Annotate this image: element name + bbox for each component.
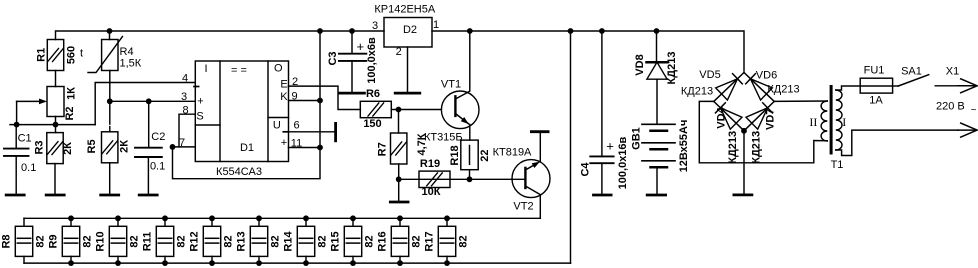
wire: node-B net (pin3/C2/R4/R5) horizontal	[110, 100, 196, 102]
svg-text:R11: R11	[142, 232, 154, 252]
resistor R5	[109, 101, 111, 124]
wire: resistor bank bottom rail	[24, 262, 571, 264]
svg-text:100,0х6в: 100,0х6в	[366, 37, 378, 84]
transistor VT2 КТ819А	[512, 160, 550, 198]
svg-text:= =: = =	[231, 65, 247, 77]
wire: base row R7 node to VT2 base	[399, 178, 526, 180]
svg-text:+: +	[606, 139, 614, 154]
node: rail junction at C3	[349, 28, 355, 34]
svg-text:K: K	[280, 91, 288, 103]
transformer T1 winding II	[821, 101, 827, 141]
wire: bridge edge B-R	[744, 101, 774, 130]
wire: pin4 riser	[95, 83, 195, 125]
svg-text:R4: R4	[120, 46, 134, 58]
svg-text:R8: R8	[1, 234, 13, 248]
svg-text:VD8: VD8	[634, 54, 646, 75]
wire R4 bottom to node B	[109, 71, 111, 102]
svg-text:КД213: КД213	[681, 86, 713, 98]
node: riser to rail	[568, 28, 574, 34]
node: pin 11 junction	[317, 145, 323, 151]
wire pin 6 to chassis bar	[289, 131, 335, 133]
chassis ground under R7	[390, 201, 408, 204]
wire SA1 fixed contact to X1 arrow	[935, 85, 958, 87]
svg-text:2К: 2К	[119, 140, 131, 153]
svg-text:VT1: VT1	[441, 79, 461, 91]
battery GB1 12Вх55Ач	[642, 123, 675, 125]
resistor R11 82	[164, 218, 166, 226]
svg-text:I: I	[204, 63, 207, 75]
node: R7/R19/ground junction	[396, 176, 402, 182]
node: rail at C4	[599, 28, 605, 34]
chassis ground under R3	[46, 194, 64, 197]
svg-text:82: 82	[35, 235, 47, 247]
connector X1 lower arrow	[961, 123, 977, 137]
svg-text:82: 82	[270, 235, 282, 247]
wire pin 9 (K)	[289, 100, 321, 102]
svg-text:R2: R2	[64, 106, 76, 120]
svg-text:D1: D1	[240, 142, 254, 154]
capacitor C3 (electrolytic)	[351, 31, 353, 54]
svg-text:R9: R9	[48, 234, 60, 248]
diode VD4 КД213	[720, 108, 742, 129]
svg-text:+: +	[281, 137, 287, 149]
op-amp comparator U/D1 К554СА3 box	[195, 61, 288, 162]
wire pin 7 to corner	[173, 146, 196, 148]
wire: winding I bottom to 220V lower line	[836, 130, 958, 155]
svg-text:100,0х16в: 100,0х16в	[617, 136, 629, 189]
resistor R1	[47, 40, 63, 71]
node: C1/wiper junction	[14, 122, 20, 128]
svg-text:T1: T1	[831, 159, 844, 171]
wire: resistor bank top rail	[24, 217, 540, 219]
svg-text:D2: D2	[403, 24, 417, 36]
svg-text:82: 82	[364, 235, 376, 247]
VT2 collector (down)	[525, 186, 540, 195]
svg-text:R3: R3	[34, 140, 46, 154]
svg-text:КД213: КД213	[767, 84, 799, 96]
node: VT1 collector to rail	[467, 28, 473, 34]
VT2 emitter (up) with arrow	[525, 163, 537, 170]
wire: bridge bottom to chassis	[743, 131, 745, 194]
node: R2/R3 junction	[53, 122, 59, 128]
svg-text:VD4: VD4	[715, 106, 727, 128]
svg-text:82: 82	[317, 235, 329, 247]
svg-text:C1: C1	[18, 133, 32, 145]
diode VD5 КД213	[716, 79, 738, 100]
chassis ground under GB1	[647, 194, 665, 197]
chassis bar at pin 6 (vertical)	[334, 123, 337, 140]
node: rail at VD8	[654, 28, 660, 34]
svg-text:R6: R6	[366, 88, 380, 100]
wire: +5V rail from R1 top to D2 pin 3	[56, 31, 385, 40]
node: C2 junction	[146, 98, 152, 104]
svg-text:1,5К: 1,5К	[120, 58, 142, 70]
wire pin 2 (E) to R6	[289, 86, 361, 109]
svg-text:82: 82	[411, 235, 423, 247]
node: rail junction at output riser x=320	[317, 28, 323, 34]
resistor R12 82	[211, 218, 213, 226]
node: bottom rail at R11	[162, 260, 168, 266]
svg-text:0.1: 0.1	[150, 161, 165, 173]
svg-text:R5: R5	[86, 139, 98, 153]
svg-text:КД213: КД213	[750, 131, 762, 164]
node: bottom rail at R9	[68, 260, 74, 266]
resistor R10 82	[117, 218, 119, 226]
resistor R15 82	[352, 218, 354, 226]
wire R2 bottom to junction	[55, 117, 57, 125]
resistor R13 82	[258, 218, 260, 226]
svg-text:82: 82	[82, 235, 94, 247]
wire pin 8 jog to pin 7 net	[179, 114, 195, 147]
label minus output	[283, 131, 288, 133]
svg-text:1: 1	[433, 19, 439, 31]
node: bottom rail at R16	[397, 260, 403, 266]
diode VD8 КД213	[656, 31, 658, 62]
node: top rail at R15	[350, 215, 356, 221]
switch SA1 lever	[898, 75, 928, 86]
capacitor C2	[148, 101, 150, 147]
wire FU1 to SA1	[893, 85, 899, 87]
node: R4/R5 junction	[107, 98, 113, 104]
node: top rail at R9	[68, 215, 74, 221]
svg-text:R10: R10	[95, 231, 107, 251]
wire: bridge left vertex to winding II bottom	[699, 101, 827, 162]
chassis ground under C4	[594, 194, 612, 197]
svg-text:+: +	[197, 96, 203, 108]
node: top rail at R13	[256, 215, 262, 221]
svg-text:КД213: КД213	[727, 131, 739, 164]
svg-text:КД213: КД213	[666, 52, 678, 85]
potentiometer R2	[47, 87, 64, 117]
svg-text:C4: C4	[579, 162, 591, 177]
label minus input	[194, 86, 199, 88]
chassis ground under C2	[139, 194, 157, 197]
node: R18/R19/VT2 base junction	[467, 176, 473, 182]
svg-text:R13: R13	[236, 231, 248, 251]
svg-text:R12: R12	[189, 231, 201, 251]
node: top rail at R16	[397, 215, 403, 221]
svg-text:R1: R1	[35, 48, 47, 62]
svg-text:VD7: VD7	[764, 109, 776, 130]
resistor R7	[398, 110, 400, 134]
resistor R14 82	[305, 218, 307, 226]
wire: bridge edge L-T	[714, 73, 744, 102]
node: pin 9 junction	[317, 98, 323, 104]
wire pin 11 (+)	[289, 147, 321, 149]
node: top rail at R10	[115, 215, 121, 221]
svg-text:FU1: FU1	[864, 65, 885, 77]
node: bottom rail at R13	[256, 260, 262, 266]
svg-text:S: S	[196, 111, 203, 123]
node: bottom rail at R17	[444, 260, 450, 266]
wire to chassis ground	[398, 179, 400, 202]
VT1 collector	[455, 31, 469, 99]
wire: riser from bottom rail to top supply rail	[570, 31, 572, 263]
resistor R9 82	[70, 218, 72, 226]
svg-text:КР142ЕН5А: КР142ЕН5А	[374, 4, 435, 16]
wire R7 bottom	[398, 164, 400, 179]
svg-text:SA1: SA1	[901, 66, 922, 78]
node: pin7 corner junction	[170, 144, 176, 150]
svg-text:4: 4	[182, 73, 188, 85]
svg-text:220 В: 220 В	[936, 101, 965, 113]
wire: bridge edge R-T	[744, 73, 774, 102]
svg-text:R19: R19	[420, 158, 440, 170]
svg-text:82: 82	[223, 235, 235, 247]
chassis ground under C1	[6, 194, 24, 197]
svg-text:3: 3	[372, 20, 378, 32]
wire: bridge edge B-L	[714, 101, 744, 130]
node: top rail at R11	[162, 215, 168, 221]
svg-text:VD5: VD5	[699, 69, 720, 81]
svg-text:I: I	[842, 115, 846, 129]
svg-text:1К: 1К	[65, 87, 77, 100]
svg-text:II: II	[809, 115, 817, 129]
svg-text:0.1: 0.1	[21, 162, 36, 174]
svg-text:КТ819А: КТ819А	[493, 147, 532, 159]
node: rail junction at R4	[107, 28, 113, 34]
thermistor R4	[109, 31, 111, 40]
svg-text:3: 3	[181, 91, 187, 103]
node: top rail at R12	[209, 215, 215, 221]
wire: bridge right vertex to winding II top	[774, 100, 827, 102]
wire: output riser loop pin7-pin11-pin9-rail	[173, 31, 321, 179]
node: bottom rail at R12	[209, 260, 215, 266]
svg-text:R17: R17	[424, 231, 436, 251]
diode VD6 КД213	[751, 79, 773, 100]
transformer T1 winding I	[836, 90, 842, 150]
wire: winding I top to FU1	[836, 86, 860, 90]
node: top rail at R17	[444, 215, 450, 221]
node: bridge bottom junction	[741, 128, 747, 134]
svg-text:82: 82	[129, 235, 141, 247]
node: R6/R7/VT1 junction	[396, 107, 402, 113]
svg-text:R7: R7	[377, 142, 389, 156]
wire R1 bottom to R2 top	[55, 71, 57, 87]
svg-text:C2: C2	[151, 131, 165, 143]
VT1 emitter with arrow	[455, 114, 468, 124]
capacitor C4 (electrolytic)	[601, 31, 603, 156]
R4 thermistor diagonal	[88, 37, 123, 73]
chassis ground under C3	[340, 92, 365, 95]
svg-text:R18: R18	[449, 145, 461, 165]
svg-text:150: 150	[363, 118, 381, 130]
capacitor C1	[15, 125, 17, 149]
wire: battery + rail from D2 pin1 to bridge	[432, 31, 744, 71]
svg-text:X1: X1	[946, 66, 959, 78]
transformer T1 core	[830, 85, 833, 155]
resistor R6	[360, 101, 391, 117]
node: bottom rail at R15	[350, 260, 356, 266]
svg-text:КТ315Б: КТ315Б	[424, 132, 463, 144]
chassis ground under bridge	[734, 193, 752, 196]
svg-text:O: O	[274, 63, 283, 75]
svg-text:22: 22	[479, 149, 491, 161]
svg-text:C3: C3	[327, 51, 339, 65]
wire D2 pin 2 to chassis	[407, 47, 409, 93]
svg-text:t: t	[80, 48, 83, 60]
svg-text:R15: R15	[330, 231, 342, 251]
svg-text:VT2: VT2	[513, 200, 533, 212]
svg-text:1А: 1А	[869, 95, 883, 107]
chassis ground under D2	[395, 92, 420, 95]
svg-text:U: U	[273, 120, 281, 132]
wire R6 right to junction and VT1 base	[391, 109, 441, 111]
svg-text:R16: R16	[377, 231, 389, 251]
svg-text:82: 82	[458, 235, 470, 247]
R2 wiper arrow	[17, 100, 44, 102]
svg-text:82: 82	[176, 235, 188, 247]
svg-text:~: ~	[971, 105, 977, 116]
resistor R17 82	[446, 218, 448, 226]
chassis bar above VT2	[531, 130, 548, 133]
diode VD7 КД213	[746, 108, 768, 129]
svg-text:6: 6	[293, 119, 299, 131]
resistor R19	[419, 171, 450, 187]
svg-text:R14: R14	[283, 231, 295, 252]
wire R18 bottom	[469, 170, 471, 180]
resistor R8 82	[23, 218, 25, 226]
fuse FU1 1А	[860, 78, 892, 93]
resistor R18	[461, 140, 478, 170]
node: top rail at R14	[303, 215, 309, 221]
svg-text:560: 560	[66, 46, 78, 64]
svg-text:GB1: GB1	[631, 127, 643, 150]
resistor R16 82	[399, 218, 401, 226]
chassis ground under R5	[101, 194, 119, 197]
svg-text:10К: 10К	[422, 186, 441, 198]
resistor R3	[55, 125, 57, 133]
svg-text:2К: 2К	[62, 142, 74, 155]
wire: node-A net (pin4/C1/R2/R3) horizontal	[10, 124, 95, 126]
svg-text:E: E	[280, 79, 287, 91]
wire R2 wiper riser down	[16, 101, 18, 124]
node: bottom rail at R14	[303, 260, 309, 266]
svg-text:+: +	[357, 39, 365, 54]
voltage regulator D2 КР142ЕН5А box	[384, 18, 432, 48]
transistor VT1 КТ315Б	[441, 91, 479, 129]
svg-text:К554СА3: К554СА3	[216, 166, 262, 178]
svg-text:VD6: VD6	[756, 69, 777, 81]
node: bottom rail at R10	[115, 260, 121, 266]
svg-text:2: 2	[396, 46, 402, 58]
connector X1 upper arrow	[961, 79, 977, 93]
svg-text:12Вх55Ач: 12Вх55Ач	[678, 120, 690, 173]
